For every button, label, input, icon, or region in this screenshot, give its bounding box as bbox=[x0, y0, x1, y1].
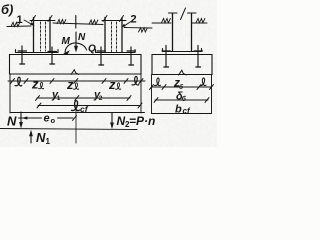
column 1 break marks bbox=[32, 16, 53, 22]
right anchor bolt left bbox=[162, 46, 171, 68]
right box left witness bbox=[151, 75, 153, 114]
callout 1 digit bbox=[17, 14, 23, 26]
anchor bolt 2 bbox=[48, 47, 57, 64]
right row1 labels bbox=[155, 78, 206, 86]
svg-text:b: b bbox=[175, 104, 182, 116]
svg-text:o: o bbox=[51, 116, 56, 125]
svg-text:1: 1 bbox=[57, 95, 61, 102]
ground line right of column 2 bbox=[124, 27, 152, 30]
force N arrow bbox=[75, 32, 77, 49]
soil hatch right of right column bbox=[196, 19, 205, 23]
right column left flange bbox=[172, 14, 174, 52]
ground line left of column 1 bbox=[7, 25, 31, 28]
svg-text:M: M bbox=[62, 36, 71, 47]
right column top flange caps bbox=[169, 12, 197, 14]
ground line between columns bbox=[53, 23, 103, 25]
svg-text:Q: Q bbox=[88, 44, 96, 55]
left footing outline bbox=[10, 55, 142, 75]
column 1 cap line bbox=[30, 20, 55, 22]
column 2 left flange bbox=[104, 18, 106, 53]
svg-text:z: z bbox=[66, 77, 74, 92]
force N bottom label bbox=[7, 114, 17, 129]
svg-text:2: 2 bbox=[99, 95, 103, 102]
dimension row3 line lcf bbox=[38, 105, 141, 107]
callout 2 digit bbox=[131, 14, 137, 26]
right footing bottom break mark bbox=[179, 70, 187, 75]
soil hatch left of right column bbox=[162, 19, 171, 23]
soil hatch left bbox=[11, 22, 20, 26]
force M label bbox=[62, 36, 71, 47]
right row2 label bbox=[176, 91, 187, 104]
svg-text:z: z bbox=[108, 77, 116, 92]
soil hatch mid-right bbox=[89, 20, 98, 24]
row2 labels bbox=[51, 89, 103, 102]
ground line right of right column bbox=[192, 22, 207, 24]
svg-text:N: N bbox=[36, 130, 46, 145]
force N2 arrow down bbox=[111, 113, 113, 126]
svg-text:б: б bbox=[182, 95, 187, 103]
soil hatch right of column 2 bbox=[139, 28, 148, 32]
svg-text:=P·n: =P·n bbox=[129, 114, 155, 128]
center axis bottom bbox=[75, 107, 77, 143]
anchor bolt 1 bbox=[18, 46, 27, 64]
e0 label bbox=[44, 113, 56, 126]
svg-text:1: 1 bbox=[46, 137, 51, 146]
right footing base plate bbox=[163, 49, 202, 52]
row1 labels bbox=[15, 76, 139, 92]
ground line left of right column bbox=[158, 22, 171, 24]
row2 ticks bbox=[36, 96, 40, 101]
dimension row1 line bbox=[8, 80, 145, 82]
anchor bolt 4 bbox=[127, 47, 136, 65]
base plate column 1 bbox=[16, 50, 59, 53]
right row1 line bbox=[152, 86, 212, 88]
column 2 dashed lattice bbox=[111, 22, 113, 52]
right row2 ticks bbox=[154, 98, 158, 103]
force N bottom arrow bbox=[20, 112, 22, 125]
row1 ticks bbox=[11, 79, 144, 84]
svg-text:N: N bbox=[7, 114, 17, 129]
baseline bbox=[0, 129, 137, 130]
force N2 label bbox=[117, 114, 156, 129]
moment M arc bbox=[65, 43, 87, 52]
right footing outline bbox=[152, 55, 212, 75]
right box right witness bbox=[211, 75, 213, 114]
column 1 left flange bbox=[33, 18, 35, 52]
svg-text:б): б) bbox=[1, 2, 13, 17]
svg-text:z: z bbox=[31, 77, 39, 92]
column 2 cap line bbox=[102, 20, 126, 22]
label lcf bbox=[72, 101, 80, 111]
dimension row2 line bbox=[37, 97, 130, 99]
center axis tick at ground bbox=[75, 16, 77, 29]
e0 dimension line bbox=[19, 117, 74, 119]
anchor bolt 3 bbox=[97, 47, 106, 65]
soil hatch mid-left bbox=[57, 20, 66, 24]
force N label bbox=[78, 32, 86, 43]
column 2 right flange bbox=[121, 18, 123, 53]
right row3 label bcf bbox=[175, 104, 191, 116]
left box bottom line bbox=[10, 112, 145, 114]
right anchor bolt right bbox=[194, 46, 203, 68]
svg-text:N: N bbox=[78, 32, 86, 43]
right box bottom line bbox=[152, 113, 212, 115]
force N1 label bbox=[36, 130, 51, 146]
label b) top-left bbox=[1, 2, 13, 17]
callout 2 leader arrow bbox=[124, 22, 131, 27]
right row2 line bbox=[155, 99, 208, 101]
row3 ticks bbox=[37, 103, 41, 108]
column 1 dashed lattice bbox=[40, 22, 42, 51]
force N1 arrow up bbox=[30, 134, 32, 143]
footing bottom break mark bbox=[71, 70, 79, 75]
callout 1 leader arrow bbox=[24, 20, 33, 25]
force Q label bbox=[88, 44, 96, 55]
column 2 break marks bbox=[103, 16, 124, 22]
left dimension box left witness bbox=[9, 74, 11, 113]
svg-text:e: e bbox=[44, 113, 50, 125]
ground dash far left of right footing bbox=[152, 22, 158, 24]
left dimension box right witness bbox=[140, 74, 142, 113]
column 1 right flange bbox=[49, 18, 51, 52]
right column break slash bbox=[181, 8, 186, 20]
right row1 ticks bbox=[150, 85, 154, 90]
svg-text:2: 2 bbox=[131, 14, 137, 26]
right column right flange bbox=[191, 14, 193, 52]
base plate column 2 bbox=[96, 50, 136, 53]
